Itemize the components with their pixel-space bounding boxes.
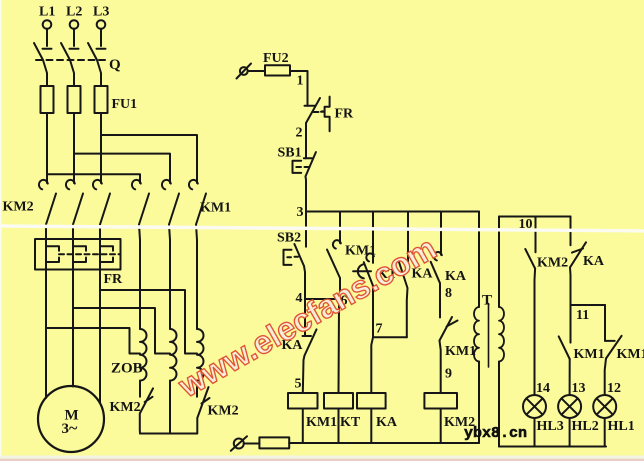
contactor KM1 main contact 2 [162, 180, 179, 225]
transformer T primary wire [478, 212, 480, 444]
svg-text:KM2: KM2 [3, 200, 34, 215]
wire FR pole1 to motor [45, 270, 47, 398]
autotransformer ZOB coil 3 [197, 329, 204, 381]
node L2 [70, 20, 79, 29]
wire FR pole2 to motor [72, 270, 74, 387]
svg-text:KM2: KM2 [208, 404, 239, 419]
svg-text:14: 14 [536, 381, 550, 396]
KT delay symbol [353, 264, 371, 278]
wire lamp bottom line [499, 446, 606, 448]
coil KA [357, 393, 386, 409]
bottom white band [0, 456, 644, 459]
SB1 actuator [293, 161, 310, 173]
wire motor phase C to ZOB coil3 tap [100, 290, 197, 354]
wire KM1 pole3 to ZOB coil3 [196, 225, 197, 330]
wire KM1 pole1 to ZOB coil1 [139, 225, 140, 330]
svg-text:KM1: KM1 [345, 244, 376, 259]
relay contact KA normally-open branch D [399, 262, 408, 337]
wire KT contact to node 7 [372, 286, 374, 338]
svg-text:KA: KA [376, 415, 398, 430]
svg-text:SB2: SB2 [277, 231, 301, 246]
white separator line [0, 224, 644, 232]
wire L1 fuse to KM2 contact [46, 113, 48, 183]
bottom pink band [0, 459, 644, 461]
node L3 [97, 20, 106, 29]
wire motor phase A to ZOB coil1 tap [46, 328, 140, 354]
wire branch A drop [305, 212, 307, 247]
svg-text:1: 1 [297, 74, 304, 89]
pushbutton SB1 normally-closed [304, 152, 316, 176]
wire HL2 to bottom [569, 418, 571, 447]
contactor KM2 star contact left [140, 381, 153, 434]
transformer T secondary winding [499, 307, 504, 362]
wire KM1 aux to node 6 and KT coil [339, 278, 341, 393]
contactor KM2 star contact right [197, 381, 210, 434]
wire KM1 coil to bottom [302, 409, 304, 444]
svg-text:2: 2 [296, 126, 303, 141]
wire node11 to KM1 lamp left [570, 305, 572, 343]
svg-text:FU1: FU1 [112, 97, 138, 112]
coil KM2 [424, 393, 457, 409]
pushbutton SB2 normally-open [294, 244, 304, 266]
wire FU2 to node 1 [290, 71, 308, 106]
svg-text:KM1: KM1 [306, 415, 337, 430]
FR heater 2 [73, 239, 86, 270]
switch Q linkage dashed [36, 59, 107, 61]
transformer T core [488, 304, 490, 368]
wire KM2 pole3 to FR [99, 225, 101, 240]
wire control bus node 3 [306, 211, 479, 213]
svg-text:3~: 3~ [62, 420, 79, 437]
FR heater 1 [46, 239, 59, 270]
wire L3 fuse to KM2 contact [100, 113, 102, 183]
contactor KM1 interlock lamp right normally-closed [605, 336, 621, 359]
svg-text:8: 8 [445, 286, 452, 301]
svg-text:KM2: KM2 [110, 400, 141, 415]
wire SB2 to node 4 [304, 266, 305, 299]
contactor KM1 interlock normally-closed [440, 317, 458, 341]
switch Q pole 2 [61, 43, 74, 86]
svg-text:FU2: FU2 [263, 51, 289, 66]
switch Q pole 3 [88, 43, 101, 86]
motor M circle [38, 386, 104, 452]
lamp HL3 [523, 395, 546, 418]
svg-text:5: 5 [295, 377, 302, 392]
svg-text:9: 9 [445, 367, 452, 382]
contactor KM1 aux contact normally-open [327, 240, 341, 278]
svg-text:KM1: KM1 [445, 344, 476, 359]
time relay KT delayed contact [364, 253, 374, 285]
wire KA lamp branch drop [570, 217, 572, 246]
wire KA to KM1 interlock [439, 283, 441, 317]
coil KT [324, 393, 353, 409]
svg-text:KA: KA [445, 269, 467, 284]
contactor KM2 main contact 1 [39, 180, 56, 225]
fuse FU2 lower [259, 437, 289, 448]
wire branch E drop [440, 212, 442, 255]
wire L1 to switch [43, 29, 52, 49]
wire KT coil to bottom [338, 409, 340, 444]
wire node11 to KM1 lamp right [604, 305, 606, 341]
wire star point bar [140, 433, 197, 435]
FR trip linkage dashed [59, 253, 121, 255]
SB2 actuator [284, 250, 299, 265]
terminal bottom control [234, 439, 244, 449]
wire jumper L2 to KM1 pole2 [74, 154, 170, 183]
wire KM1 pole2 to ZOB coil2 [169, 225, 170, 330]
svg-text:7: 7 [376, 322, 383, 337]
wire node 9 to KM2 coil [440, 341, 441, 394]
wire KM1 aux to lamp HL2 [569, 359, 571, 395]
wire branch C drop [372, 212, 374, 263]
svg-text:KA: KA [583, 254, 605, 269]
wire control bottom line [289, 442, 479, 444]
wire lamp section top node 10 [499, 216, 571, 218]
svg-text:Q: Q [109, 57, 121, 73]
wire KA to KM1 coil [303, 356, 305, 394]
svg-text:L1: L1 [39, 5, 55, 20]
svg-text:11: 11 [576, 308, 589, 323]
wire KM2 pole1 to FR [45, 225, 47, 240]
wire jumper L1 to KM1 pole1 [47, 174, 140, 183]
autotransformer ZOB coil 2 [170, 329, 177, 381]
svg-text:HL3: HL3 [537, 419, 564, 434]
contactor KM2 main contact 3 [93, 180, 110, 225]
svg-text:KT: KT [340, 415, 361, 430]
wire node2 FR to SB1 [305, 123, 307, 158]
transformer T secondary wire [498, 217, 500, 447]
wire branch B drop [339, 212, 341, 244]
wire L3 to switch [97, 29, 106, 49]
svg-text:FR: FR [335, 107, 355, 122]
contactor KM2 main contact 2 [66, 180, 83, 225]
fuse FU1 pole 3 [95, 86, 108, 113]
svg-text:L3: L3 [93, 5, 109, 20]
terminal top control [240, 67, 248, 75]
wire jumper L3 to KM1 pole3 [101, 135, 197, 183]
switch Q pole 1 [34, 43, 47, 86]
fuse FU1 pole 2 [68, 86, 81, 113]
wire ZOB coil2 to star point [169, 381, 171, 434]
wire terminal to FU2 [248, 70, 265, 72]
left edge white line [0, 0, 1, 456]
wire KM2 lamp branch drop [535, 217, 537, 253]
svg-text:L2: L2 [66, 5, 82, 20]
fuse FU2 [265, 65, 290, 75]
relay contact KA normally-closed lamp branch [570, 242, 586, 267]
svg-text:HL1: HL1 [608, 419, 635, 434]
lamp HL1 [593, 395, 616, 418]
wire KA coil to bottom [370, 409, 372, 444]
wire node4 to node6 [305, 298, 340, 300]
lamp HL2 [558, 395, 581, 418]
wire KM2 pole2 to FR [72, 225, 74, 240]
wire branch D drop [407, 212, 409, 263]
contactor KM1 main contact 1 [132, 180, 149, 225]
wire node7 bar [373, 336, 407, 338]
contactor KM1 main contact 3 [189, 180, 206, 225]
svg-text:KM1: KM1 [200, 201, 231, 216]
autotransformer ZOB coil 1 [140, 329, 147, 381]
wire terminal to fuse lower [244, 443, 260, 445]
svg-text:KM1: KM1 [574, 347, 605, 362]
FR trip flag [322, 97, 330, 132]
relay contact KA normally-closed branch A [303, 299, 317, 356]
relay contact KA normally-open branch E [431, 252, 442, 283]
wire KM2 aux to lamp HL3 [534, 269, 537, 396]
contactor KM2 aux contact lamp branch [525, 249, 535, 269]
svg-text:SB1: SB1 [278, 146, 302, 161]
wire L2 to switch [70, 29, 79, 49]
contactor KM1 aux contact lamp left [559, 336, 570, 359]
svg-text:ybx8.cn: ybx8.cn [464, 425, 527, 442]
fuse FU1 pole 1 [41, 86, 54, 113]
wire KM1 to lamp HL1 [605, 359, 606, 396]
wire node7 to KA coil [371, 337, 373, 393]
wire SB1 to node 3 [305, 176, 308, 211]
svg-text:13: 13 [572, 381, 586, 396]
svg-text:ZOB: ZOB [111, 361, 143, 377]
svg-text:12: 12 [607, 381, 621, 396]
thermal contact FR normally-closed [305, 98, 325, 123]
svg-text:FR: FR [104, 272, 124, 287]
wire FR pole3 to motor [99, 270, 101, 403]
node L1 [43, 20, 52, 29]
coil KM1 [288, 393, 318, 409]
wire KA to node 11 [569, 267, 572, 305]
svg-text:T: T [482, 293, 492, 309]
transformer T primary winding [474, 307, 479, 362]
thermal relay FR box [35, 239, 121, 270]
wire motor phase B to ZOB coil2 tap [73, 308, 170, 354]
svg-text:KM2: KM2 [537, 256, 568, 271]
svg-text:3: 3 [297, 205, 304, 220]
wire node 11 bar [571, 304, 606, 306]
wire HL1 to bottom [604, 418, 606, 447]
FR heater 3 [100, 239, 113, 270]
wire KM2 coil to bottom [440, 409, 442, 444]
svg-text:KM1: KM1 [617, 347, 644, 362]
wire L2 fuse to KM2 contact [73, 113, 75, 183]
svg-text:HL2: HL2 [572, 419, 599, 434]
wire HL3 to bottom [534, 418, 536, 447]
